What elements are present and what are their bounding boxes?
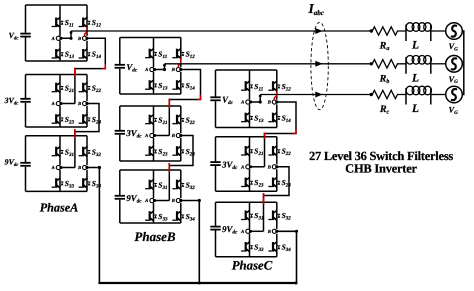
node A (phase B cell 2) xyxy=(144,133,156,139)
svg-text:A: A xyxy=(144,198,148,204)
node B (phase C cell 1) xyxy=(267,100,279,106)
capacitor Vdc (phase B cell 1 DC link) xyxy=(115,38,125,95)
wire (red highlight): phase A cell1 S12-emitter to node B xyxy=(85,27,87,36)
wire: phase C cell 2 bottom rail xyxy=(216,190,277,192)
value label 3V_dc xyxy=(4,96,20,107)
wire: phase C cell 1 top rail xyxy=(216,69,277,71)
svg-text:B: B xyxy=(171,198,175,204)
node B (phase A cell 2) xyxy=(77,101,89,107)
wire (red highlight): phase A cascade corner cell1 xyxy=(102,64,106,69)
transistor S22 (phase B cell 2) xyxy=(172,114,195,126)
wire: phase A cell 1 right leg xyxy=(86,5,88,61)
transistor S22 (phase A cell 2) xyxy=(79,82,102,94)
wire: phase B cell 3 right leg xyxy=(180,170,182,223)
wire: phase B cell 1 bottom rail xyxy=(120,93,181,95)
transistor S33 (phase B cell 3) xyxy=(145,211,168,223)
transistor S32 (phase C cell 3) xyxy=(268,210,291,222)
inductor L (line c) xyxy=(406,86,446,104)
label: PhaseC xyxy=(232,259,273,273)
wire (red highlight): phase C cascade corner cell1 xyxy=(293,129,297,134)
label: PhaseA xyxy=(40,201,79,215)
wire: phase B cell 3 bottom rail xyxy=(120,222,181,224)
wire: phase A cascade cell2 B to cell3 A xyxy=(75,104,99,168)
transistor S22 (phase C cell 2) xyxy=(268,146,291,158)
svg-text:A: A xyxy=(240,229,244,235)
node B (phase B cell 1) xyxy=(171,67,183,73)
svg-text:B: B xyxy=(171,133,175,139)
node A (phase A cell 3) xyxy=(51,165,63,171)
wire (red highlight): phase A drop onto cell3 top rail xyxy=(74,129,76,138)
wire: phase B cell 1 right leg xyxy=(180,38,182,95)
svg-text:A: A xyxy=(51,101,55,107)
wire: phase B cell 2 left leg xyxy=(153,106,155,161)
transistor S13 (phase C cell 1) xyxy=(241,112,264,124)
wire: phase A cell 3 bottom rail xyxy=(26,190,88,192)
wire: phase B cell 3 left leg xyxy=(153,170,155,223)
wire (red highlight): phase C drop onto cell3 top rail xyxy=(263,193,265,205)
wire: phase C cascade cell1 B to cell2 A xyxy=(265,102,297,167)
wire: phase A cell 2 node A lead xyxy=(61,103,75,105)
wire: phase C cell 1 node A to output riser xyxy=(251,95,262,104)
value label V_dc xyxy=(222,95,233,107)
wire: phase B cell 3 top rail xyxy=(120,169,181,171)
wire: phase A cell 3 top rail xyxy=(26,135,88,137)
svg-text:B: B xyxy=(77,36,81,42)
wire (red highlight): phase B cell1 S12-emitter to node B xyxy=(178,59,180,68)
wire: bottom neutral bus xyxy=(98,282,297,285)
wire: right-side neutral bus joining the three AC sources xyxy=(462,31,464,95)
value label R_c xyxy=(379,104,390,116)
wire: phase B cell 3 node B to neutral drop xyxy=(181,199,201,283)
transistor S24 (phase A cell 2) xyxy=(79,114,102,126)
wire: phase A cell 3 node A lead xyxy=(61,167,75,169)
node A (phase A cell 1) xyxy=(51,36,63,42)
wire: phase A cell 2 right leg xyxy=(86,75,88,128)
transistor S23 (phase C cell 2) xyxy=(241,177,264,189)
capacitor 3Vdc (phase B cell 2 DC link) xyxy=(115,106,125,161)
wire: phase A cell 3 left leg xyxy=(59,136,61,192)
wire: phase B cell 1 left leg xyxy=(153,38,155,95)
wire (red highlight): phase B drop onto cell2 top rail xyxy=(168,99,170,109)
value label V_G (line a) xyxy=(449,41,459,52)
svg-text:PhaseA: PhaseA xyxy=(40,201,79,215)
transistor S24 (phase C cell 2) xyxy=(268,177,291,189)
node B (phase A cell 3) xyxy=(77,165,89,171)
wire: phase C cell 3 top rail xyxy=(216,201,277,203)
svg-text:B: B xyxy=(77,165,81,171)
current arrow on line a xyxy=(315,28,322,34)
wire: phase B cell 2 node A lead xyxy=(155,135,170,137)
svg-text:L: L xyxy=(411,72,419,84)
value label 3V_dc xyxy=(125,128,142,140)
node B (phase C cell 2) xyxy=(267,164,279,170)
wire: phase A cell 2 left leg xyxy=(59,75,61,128)
svg-text:PhaseB: PhaseB xyxy=(134,229,176,244)
wire: phase C cell 3 left leg xyxy=(249,202,251,257)
node A (phase B cell 1) xyxy=(144,67,156,73)
transistor S14 (phase C cell 1) xyxy=(268,112,291,124)
wire: phase C cell 2 right leg xyxy=(276,137,278,191)
wire (red highlight): phase C cell1 S12-emitter to node B xyxy=(274,91,276,100)
svg-text:B: B xyxy=(267,229,271,235)
wire: phase B cell 3 node A lead xyxy=(155,200,170,202)
node B (phase B cell 2) xyxy=(171,133,183,139)
node A (phase B cell 3) xyxy=(144,198,156,204)
AC source V_G (line a) xyxy=(446,23,463,40)
current arrow on line b xyxy=(315,61,322,67)
wire: phase C cell 3 node A lead xyxy=(251,230,264,232)
wire: phase C cell 3 node B to neutral drop xyxy=(277,230,298,283)
transistor S12 (phase B cell 1) xyxy=(172,48,195,60)
value label V_dc xyxy=(126,62,137,74)
label I_abc xyxy=(308,1,324,17)
AC source V_G (line b) xyxy=(446,56,463,73)
transistor S12 (phase A cell 1) xyxy=(79,17,102,29)
transistor S32 (phase A cell 3) xyxy=(79,146,102,158)
svg-text:A: A xyxy=(240,100,244,106)
wire: phase C cell 2 left leg xyxy=(249,137,251,191)
current arrow on line c xyxy=(315,92,322,98)
svg-text:L: L xyxy=(411,40,419,52)
transistor S32 (phase B cell 3) xyxy=(172,179,195,191)
wire: phase A cell 3 right leg xyxy=(86,136,88,192)
wire: phase C cell 2 top rail xyxy=(216,136,277,138)
wire: phase C cell 1 left leg xyxy=(249,70,251,128)
resistor Rc xyxy=(372,90,406,98)
wire (red highlight): phase C drop onto cell2 top rail xyxy=(264,133,266,140)
transistor S33 (phase A cell 3) xyxy=(52,178,75,190)
value label L (line c) xyxy=(411,103,419,115)
svg-text:A: A xyxy=(240,164,244,170)
AC source V_G (line c) xyxy=(446,86,463,103)
value label 9V_dc xyxy=(5,158,20,169)
wire: phase A cell 1 node A to output riser xyxy=(61,31,73,40)
title text xyxy=(309,149,453,176)
resistor Ra xyxy=(372,27,406,35)
capacitor Vdc (phase C cell 1 DC link) xyxy=(210,70,220,128)
wire: phase C cell 1 bottom rail xyxy=(216,127,277,129)
value label V_G (line c) xyxy=(449,105,459,116)
transistor S24 (phase B cell 2) xyxy=(172,146,195,158)
wire: phase C cell 1 right leg xyxy=(276,70,278,128)
svg-text:B: B xyxy=(77,101,81,107)
wire: phase C cell 3 right leg xyxy=(276,202,278,257)
transistor S14 (phase A cell 1) xyxy=(79,49,102,61)
wire: phase A cell 1 top rail xyxy=(26,4,88,6)
inductor L (line b) xyxy=(406,56,446,74)
transistor S33 (phase C cell 3) xyxy=(241,242,264,254)
transistor S21 (phase A cell 2) xyxy=(52,82,74,94)
svg-text:PhaseC: PhaseC xyxy=(232,259,273,273)
svg-text:A: A xyxy=(51,165,55,171)
transistor S11 (phase B cell 1) xyxy=(145,48,167,60)
svg-text:B: B xyxy=(267,100,271,106)
wire: phase A cell 2 bottom rail xyxy=(26,126,88,128)
capacitor 9Vdc (phase A cell 3 DC link) xyxy=(20,136,30,192)
transistor S14 (phase B cell 1) xyxy=(172,80,195,92)
wire: phase A cascade cell1 B to cell2 A xyxy=(75,38,105,103)
inductor L (line a) xyxy=(406,23,446,41)
wire: phase B cell 1 top rail xyxy=(120,37,181,39)
svg-text:L: L xyxy=(411,103,419,115)
wire: phase B cascade cell1 B to cell2 A xyxy=(169,70,200,136)
transistor S13 (phase A cell 1) xyxy=(52,49,75,61)
svg-text:CHB Inverter: CHB Inverter xyxy=(345,162,417,176)
wire: phase C output line xyxy=(260,93,373,96)
transistor S31 (phase C cell 3) xyxy=(241,210,263,222)
node A (phase C cell 1) xyxy=(240,100,252,106)
transistor S21 (phase B cell 2) xyxy=(145,114,167,126)
transistor S13 (phase B cell 1) xyxy=(145,80,168,92)
node A (phase C cell 2) xyxy=(240,164,252,170)
wire: phase A cell 3 node B to neutral drop xyxy=(87,166,101,283)
value label 9V_dc xyxy=(222,224,238,236)
value label V_G (line b) xyxy=(449,74,459,85)
capacitor 9Vdc (phase C cell 3 DC link) xyxy=(210,202,220,257)
wire (red highlight): phase B drop onto cell3 top rail xyxy=(168,163,170,173)
transistor S11 (phase A cell 1) xyxy=(52,17,74,29)
wire: phase C cell 2 node A lead xyxy=(251,166,265,168)
transistor S34 (phase C cell 3) xyxy=(268,242,291,254)
wire: phase B cell 2 right leg xyxy=(180,106,182,161)
capacitor 9Vdc (phase B cell 3 DC link) xyxy=(115,170,125,223)
node B (phase C cell 3) xyxy=(267,229,279,235)
wire: phase A cell 1 left leg xyxy=(59,5,61,61)
transistor S23 (phase B cell 2) xyxy=(145,146,168,158)
value label 9V_dc xyxy=(126,193,142,205)
transistor S34 (phase B cell 3) xyxy=(172,211,195,223)
wire: phase A cell 1 bottom rail xyxy=(26,60,88,62)
wire: phase B output line xyxy=(165,62,373,65)
transistor S21 (phase C cell 2) xyxy=(241,146,263,158)
svg-text:A: A xyxy=(144,133,148,139)
label: PhaseB xyxy=(134,229,176,244)
transistor S31 (phase A cell 3) xyxy=(52,146,74,158)
transistor S31 (phase B cell 3) xyxy=(145,179,167,191)
capacitor 3Vdc (phase A cell 2 DC link) xyxy=(20,75,30,128)
wire: phase B cell 2 top rail xyxy=(120,105,181,107)
transistor S12 (phase C cell 1) xyxy=(268,81,291,93)
capacitor 3Vdc (phase C cell 2 DC link) xyxy=(210,137,220,191)
wire: phase A cell 2 top rail xyxy=(26,74,88,76)
node B (phase B cell 3) xyxy=(171,198,183,204)
value label R_a xyxy=(379,41,390,53)
wire (red highlight): phase B cascade corner cell1 xyxy=(197,95,201,100)
value label 3V_dc xyxy=(221,159,238,171)
node A (phase A cell 2) xyxy=(51,101,63,107)
value label L (line a) xyxy=(411,40,419,52)
wire: phase C cell 3 bottom rail xyxy=(216,256,277,258)
svg-text:B: B xyxy=(171,67,175,73)
transistor S34 (phase A cell 3) xyxy=(79,178,102,190)
transistor S23 (phase A cell 2) xyxy=(52,114,75,126)
svg-text:B: B xyxy=(267,164,271,170)
value label R_b xyxy=(379,73,390,85)
wire: phase B cascade cell2 B to cell3 A xyxy=(169,136,193,201)
wire: phase A output line xyxy=(71,29,373,32)
transistor S11 (phase C cell 1) xyxy=(241,81,263,93)
wire: phase C cascade cell2 B to cell3 A xyxy=(264,167,290,232)
value label L (line b) xyxy=(411,72,419,84)
resistor Rb xyxy=(372,60,406,68)
node A (phase C cell 3) xyxy=(240,229,252,235)
node B (phase A cell 1) xyxy=(77,36,89,42)
value label V_dc xyxy=(9,31,20,42)
capacitor Vdc (phase A cell 1 DC link) xyxy=(20,5,30,61)
node I_abc measurement ellipse (dashed) xyxy=(311,22,328,109)
svg-text:A: A xyxy=(51,36,55,42)
wire: phase B cell 2 bottom rail xyxy=(120,160,181,162)
svg-text:A: A xyxy=(144,67,148,73)
wire (red highlight): phase A drop onto cell2 top rail xyxy=(74,68,76,77)
wire: phase B cell 1 node A to output riser xyxy=(155,64,167,71)
